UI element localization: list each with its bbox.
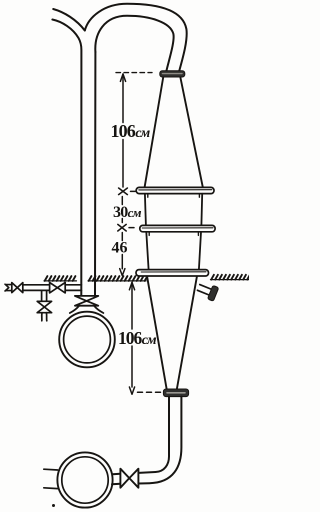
left header pipe stub end [5,284,12,291]
gooseneck pipe inner wall [95,16,173,71]
dimension top dashed datum [116,72,152,74]
pump P2 (bottom circle) [57,452,112,507]
header pipe segment V1-V2 [23,285,50,291]
floor hatch right segment [211,275,250,280]
standpipe right wall [94,52,96,296]
standpipe left wall with inlet stub lower wall [52,20,81,297]
dimension line 30cm [121,197,123,223]
upper cone right wall [180,77,202,187]
caption period mark [52,504,55,507]
lower cone left wall [147,277,167,389]
top throat flange [160,71,185,77]
flange F2 [140,225,215,231]
dimension tick at F2 [118,224,134,231]
valve V1 (far left) [12,283,23,293]
floor hatch centre segment [88,276,147,281]
drain valve V4 (vertical) [37,301,51,312]
dimension tick at F1 [119,188,136,195]
flange F1 [136,187,214,193]
pump P1 (left circle) [59,312,115,368]
valve V2 [50,283,66,293]
pipe valve-to-pump segment [112,474,120,484]
shell section 1 right wall [200,194,203,226]
flange F2 bolt ticks [149,232,198,236]
header pipe segment V2-standpipe [65,285,81,291]
bottom throat flange [163,389,188,397]
flange F1 bolt ticks [148,194,200,197]
union on standpipe (vertical bowtie) [75,296,98,306]
downcomer pipe right wall and elbow outer [139,397,182,484]
gooseneck pipe outer wall [85,4,187,71]
svg-text:46: 46 [112,240,128,257]
shell section 2 left wall [146,232,148,270]
dimension line 106cm lower [129,282,134,394]
shell section 2 right wall [199,232,201,270]
drain outlet stub [42,313,47,321]
valve V3 (bottom line) [120,469,138,488]
pump P1 inlet bell [70,306,104,313]
drain branch tee [42,290,47,301]
svg-text:30см: 30см [113,204,142,221]
inlet stub upper wall [53,9,85,31]
lower cone right wall [177,277,197,389]
pump P2 left stub marks [44,469,58,488]
dimension lower dashed datum [138,391,162,393]
shell section 1 left wall [145,194,146,226]
sampling nozzle on lower cone [196,281,219,302]
downcomer pipe left wall and elbow inner [139,397,169,473]
floor hatch left segment [44,276,77,281]
upper cone left wall [145,77,164,187]
dimension line 46 [120,233,125,276]
dimension line 106cm upper [120,74,125,187]
flange F3 (floor flange) [136,270,209,276]
